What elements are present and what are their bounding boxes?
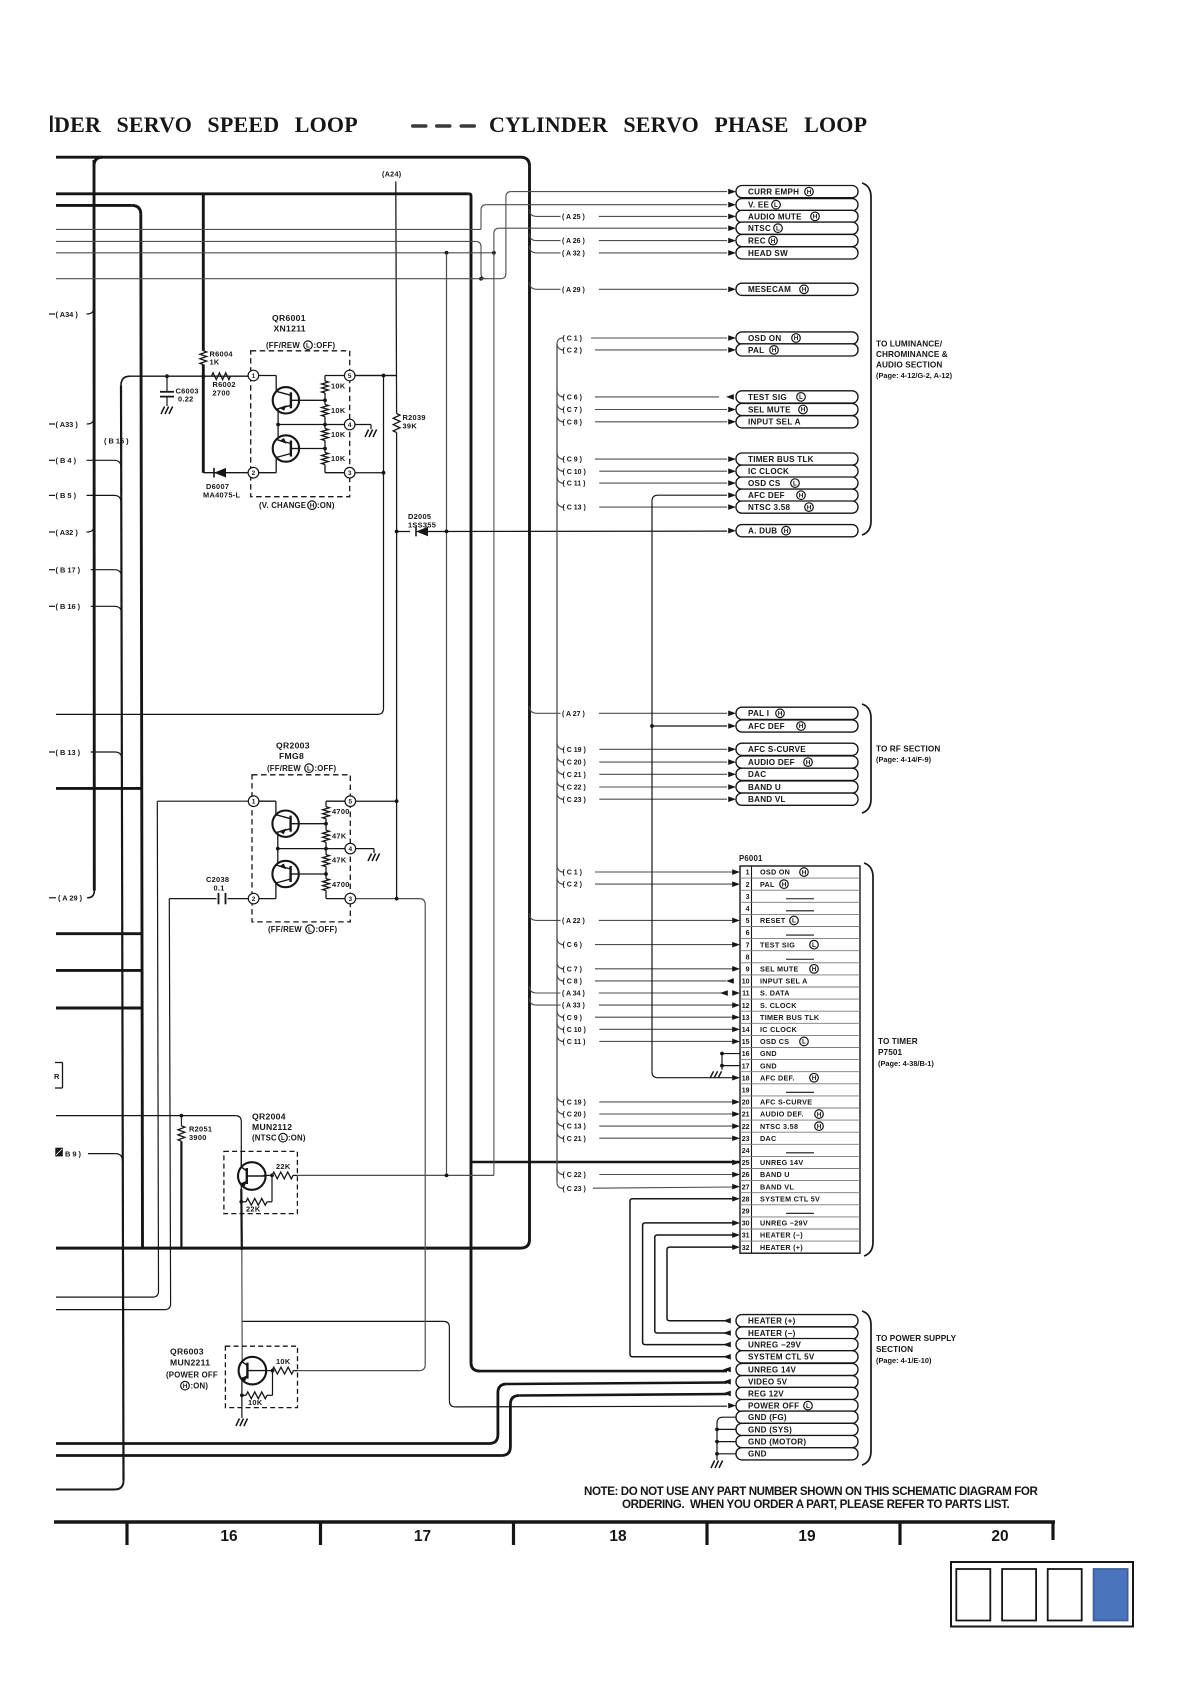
QR6001 pin 1: [248, 370, 259, 381]
wire stub y=1310: [56, 1309, 165, 1311]
wire QR2003 pin2 input: [169, 898, 216, 900]
svg-text:UNREG −29V: UNREG −29V: [760, 1219, 808, 1228]
wire (C2) to PAL: [557, 343, 727, 355]
svg-text:SYSTEM CTL 5V: SYSTEM CTL 5V: [760, 1194, 820, 1203]
svg-text:XN1211: XN1211: [274, 324, 306, 334]
wire corner into V9: [378, 708, 384, 714]
svg-text:11: 11: [742, 991, 750, 998]
wire thick stub y=934 to V2: [56, 932, 142, 935]
wire POWER OFF vertical: [448, 1327, 450, 1401]
wire QR6001 pin2 input: [203, 472, 248, 474]
node (A34): [49, 307, 94, 319]
wire REG 12V feed: [519, 1394, 727, 1396]
svg-text:R: R: [54, 1072, 60, 1081]
wire V1 corner into (A29): [87, 891, 94, 898]
svg-text:3: 3: [348, 896, 352, 903]
QR2003 pin 5: [345, 796, 356, 807]
svg-text:( A33 ): ( A33 ): [56, 420, 79, 429]
wire (C11) to pin15: [557, 1034, 733, 1046]
signal flag NTSC: [728, 222, 858, 234]
off-page bracket R: [54, 1063, 63, 1089]
svg-text:VIDEO 5V: VIDEO 5V: [748, 1378, 788, 1387]
wire corner down to QR2004: [235, 1116, 241, 1122]
signal flag UNREG 14V: [723, 1363, 858, 1375]
P6001 pin 32 HEATER (+): [742, 1243, 804, 1252]
signal flag GND: [736, 1448, 858, 1460]
svg-text:4: 4: [348, 846, 352, 853]
svg-text:AFC DEF.: AFC DEF.: [760, 1073, 795, 1082]
wire QR2004 emitter: [240, 1185, 242, 1202]
wire vertical x=169 from C2038: [169, 899, 170, 1304]
svg-text:GND (MOTOR): GND (MOTOR): [748, 1438, 806, 1447]
svg-text:10K: 10K: [331, 430, 346, 439]
svg-text:7: 7: [746, 942, 750, 949]
svg-text:0.22: 0.22: [178, 395, 194, 404]
wire QR6001 pin1 input: [130, 375, 248, 377]
signal flag AFC S-CURVE: [728, 743, 858, 755]
QR2003 resistor chain 4700/47K/47K/4700: [323, 807, 350, 891]
svg-text:( B 5 ): ( B 5 ): [56, 491, 77, 500]
section label TO POWER SUPPLY: [876, 1334, 957, 1365]
svg-text:QR6003: QR6003: [170, 1347, 204, 1357]
P6001 pin 21 AUDIO DEF.: [742, 1110, 824, 1119]
P6001 pin 2 PAL: [746, 880, 789, 889]
svg-text:H: H: [813, 214, 818, 221]
svg-text:OSD ON: OSD ON: [748, 334, 781, 343]
wire NTSC feed stub: [56, 252, 494, 254]
svg-text:AUDIO SECTION: AUDIO SECTION: [876, 361, 942, 370]
page indicator boxes: [951, 1562, 1133, 1627]
svg-text::ON): :ON): [191, 1382, 209, 1391]
wire QR6003 output to vertical: [298, 1370, 420, 1372]
svg-text:( C 13 ): ( C 13 ): [563, 1124, 586, 1131]
svg-text:QR2003: QR2003: [276, 741, 310, 751]
section label TO RF SECTION: [876, 745, 940, 765]
svg-text:( C 1 ): ( C 1 ): [563, 336, 582, 343]
QR2003 pin 1: [248, 796, 259, 807]
resistor R2051 3900: [178, 1116, 212, 1249]
signal flag BAND VL: [728, 793, 858, 805]
wire V.EE riser: [481, 205, 486, 230]
svg-text:( C 22 ): ( C 22 ): [563, 1172, 586, 1179]
svg-text:L: L: [306, 342, 310, 349]
title dashes: [411, 124, 428, 128]
svg-text:ORDERING. WHEN YOU ORDER A PA: ORDERING. WHEN YOU ORDER A PART, PLEASE …: [622, 1498, 1010, 1511]
svg-text:L: L: [307, 765, 311, 772]
svg-text:HEAD SW: HEAD SW: [748, 249, 788, 258]
svg-text:( A 26 ): ( A 26 ): [562, 238, 585, 245]
P6001 pin 31 HEATER (−): [742, 1231, 804, 1240]
svg-text:AFC S-CURVE: AFC S-CURVE: [760, 1098, 812, 1107]
svg-text:MESECAM: MESECAM: [748, 285, 791, 294]
P6001 pin 27 BAND VL: [742, 1182, 795, 1191]
resistor QR6003 10K emitter: [242, 1371, 273, 1407]
svg-text:22K: 22K: [246, 1205, 261, 1214]
wire (C23) to BAND VL: [557, 792, 727, 804]
wire VIDEO 5V feed: [507, 1383, 727, 1385]
wire bottom thick trunk to V7: [56, 1247, 521, 1250]
transistor QR6001-b: [259, 472, 277, 474]
P6001 pin 17 GND: [742, 1061, 777, 1070]
svg-text:( B 17 ): ( B 17 ): [56, 566, 81, 575]
QR2003 pin 3: [345, 893, 356, 904]
node (A29): [49, 894, 83, 903]
svg-text:UNREG −29V: UNREG −29V: [748, 1341, 801, 1350]
svg-text:25: 25: [742, 1160, 750, 1167]
wire REG 12V riser: [501, 1396, 519, 1456]
svg-text:9: 9: [746, 966, 750, 973]
signal flag AUDIO DEF: [728, 756, 858, 768]
P6001 pin 15 OSD CS: [742, 1037, 809, 1046]
wire (C10) to pin14: [557, 1022, 733, 1034]
signal flag GND (SYS): [736, 1423, 858, 1435]
svg-text:( C 1 ): ( C 1 ): [563, 870, 582, 877]
svg-text:19: 19: [798, 1528, 816, 1545]
svg-text:3: 3: [348, 470, 352, 477]
svg-text:2: 2: [746, 882, 750, 889]
svg-text:SYSTEM CTL 5V: SYSTEM CTL 5V: [748, 1353, 815, 1362]
svg-text:( C 9 ): ( C 9 ): [563, 457, 582, 464]
signal flag HEAD SW: [728, 247, 858, 259]
svg-text:L: L: [281, 1135, 285, 1142]
svg-text:OSD ON: OSD ON: [760, 868, 790, 877]
wire V4 below R2039: [396, 433, 398, 532]
svg-text:NOTE: DO NOT USE ANY PART NUMB: NOTE: DO NOT USE ANY PART NUMBER SHOWN O…: [584, 1485, 1038, 1498]
wire H3-V2 corner: [132, 205, 141, 214]
wire NTSC net vertical to QR2004: [493, 253, 495, 1176]
svg-text:1: 1: [252, 799, 256, 806]
wire (A26) to REC: [530, 234, 728, 246]
svg-text:( C 7 ): ( C 7 ): [563, 407, 582, 414]
svg-text:17: 17: [742, 1063, 750, 1070]
P6001 pin 24 NC: [742, 1148, 814, 1155]
svg-text:( C 6 ): ( C 6 ): [563, 942, 582, 949]
transistor QR2004 MUN2112: [224, 1112, 306, 1214]
P6001 pin 7 TEST SIG: [746, 940, 819, 949]
wire (A29) to MESECAM: [530, 282, 728, 294]
signal flag TIMER BUS TLK: [728, 453, 858, 465]
svg-text:H: H: [812, 966, 817, 973]
P6001 pin 11 S. DATA: [742, 989, 790, 998]
svg-text:47K: 47K: [332, 832, 347, 841]
svg-text:AFC DEF: AFC DEF: [748, 722, 785, 731]
wire VIDEO 5V riser: [489, 1384, 507, 1444]
svg-text:UNREG 14V: UNREG 14V: [760, 1158, 803, 1167]
svg-text:H: H: [801, 407, 806, 414]
svg-text:H: H: [812, 1075, 817, 1082]
svg-text:( A32 ): ( A32 ): [56, 528, 79, 537]
QR2003 pin4 ground: [356, 848, 374, 850]
svg-text:H: H: [794, 335, 799, 342]
QR6001 pin5 wire to V4: [355, 375, 397, 377]
QR6003 ground: [241, 1408, 243, 1418]
wire (C23) to pin27: [561, 1186, 733, 1193]
signal flag AUDIO MUTE: [728, 210, 858, 222]
svg-text:23: 23: [742, 1136, 750, 1143]
wire QR6003 emitter: [241, 1379, 243, 1408]
svg-text:16: 16: [742, 1051, 750, 1058]
wire B-bus bottom stub: [56, 1489, 115, 1491]
svg-text:MUN2211: MUN2211: [170, 1358, 210, 1368]
wire (A34) to P6001 pin11: [530, 986, 727, 998]
wire long VIDEO 5V line: [56, 1442, 489, 1445]
P6001 pin 16 GND: [742, 1049, 777, 1058]
svg-text:AFC S-CURVE: AFC S-CURVE: [748, 745, 806, 754]
svg-text:32: 32: [742, 1245, 750, 1252]
QR6001 resistor chain 10K x4: [322, 381, 346, 465]
bracket RF group: [862, 704, 871, 813]
svg-text:26: 26: [742, 1172, 750, 1179]
QR2003 pin 2: [248, 893, 259, 904]
svg-text:( C 21 ): ( C 21 ): [563, 1136, 586, 1143]
QR2003 pin5 wire to V4: [356, 800, 397, 802]
svg-text:DAC: DAC: [748, 770, 766, 779]
wire (A27) to PAL I: [530, 706, 728, 718]
svg-text:( A 29 ): ( A 29 ): [562, 287, 585, 294]
svg-text:H: H: [817, 1111, 822, 1118]
wire vertical x=157 from QR2003 pin1: [157, 801, 158, 1291]
wire left stub y=714: [56, 713, 378, 715]
svg-text:( B 13 ): ( B 13 ): [56, 748, 81, 757]
wire (C13) to pin22: [557, 1119, 733, 1131]
svg-text:10K: 10K: [331, 382, 346, 391]
P6001 pin 22 NTSC 3.58: [742, 1122, 824, 1131]
resistor QR2004 22K collector: [263, 1162, 297, 1179]
svg-text:OSD CS: OSD CS: [748, 479, 781, 488]
svg-text:29: 29: [742, 1208, 750, 1215]
wire B-bus top corner from QR6001 pin1 wire: [121, 376, 130, 385]
wire POWER OFF feed to flag: [455, 1405, 727, 1408]
svg-text:( B 4 ): ( B 4 ): [56, 456, 77, 465]
svg-text:( C 9 ): ( C 9 ): [563, 1015, 582, 1022]
svg-text:(NTSC: (NTSC: [252, 1134, 277, 1143]
wire (C21) to pin23: [557, 1131, 733, 1143]
signal flag GND (MOTOR): [736, 1436, 858, 1448]
signal flag MESECAM: [728, 283, 858, 295]
svg-text:(Page: 4-12/G-2, A-12): (Page: 4-12/G-2, A-12): [876, 371, 953, 380]
wire V3 lower segment: [202, 365, 205, 473]
svg-text:18: 18: [609, 1528, 627, 1545]
svg-text:( C 2 ): ( C 2 ): [563, 882, 582, 889]
wire down to QR6003 base: [241, 1248, 243, 1363]
svg-text:DAC: DAC: [760, 1134, 776, 1143]
svg-text:3900: 3900: [189, 1133, 207, 1142]
wire (C7) to pin9: [557, 962, 733, 974]
svg-text:12: 12: [742, 1003, 750, 1010]
svg-text:(A24): (A24): [382, 170, 402, 179]
svg-text:( C 13 ): ( C 13 ): [563, 505, 586, 512]
wire QR6003 base run y=1321: [242, 1320, 444, 1322]
svg-text:( C 20 ): ( C 20 ): [563, 1112, 586, 1119]
signal flag SYSTEM CTL 5V: [723, 1351, 858, 1363]
P6001 pin 1 OSD ON: [746, 868, 809, 877]
wire V.EE feed stub: [56, 228, 481, 230]
svg-text:0.1: 0.1: [214, 884, 225, 893]
svg-text:INPUT SEL A: INPUT SEL A: [748, 418, 801, 427]
svg-text:L: L: [799, 394, 803, 401]
node (B9): [55, 1148, 122, 1161]
signal flag V. EE: [728, 199, 858, 211]
svg-text:REC: REC: [748, 237, 766, 246]
svg-text:1: 1: [252, 373, 256, 380]
wire (C2) to pin2: [557, 877, 733, 889]
svg-text:L: L: [308, 926, 312, 933]
svg-text:TO LUMINANCE/: TO LUMINANCE/: [876, 340, 943, 349]
svg-text:19: 19: [742, 1087, 750, 1094]
svg-text:P6001: P6001: [739, 854, 763, 863]
wire QR6001 pin5 to V4: [355, 375, 397, 377]
wire D2005 anode side: [397, 531, 410, 533]
svg-text:TIMER BUS TLK: TIMER BUS TLK: [760, 1013, 820, 1022]
bracket luminance group: [862, 183, 871, 535]
svg-text:22: 22: [742, 1124, 750, 1131]
svg-text::ON): :ON): [288, 1134, 306, 1143]
title: CYLINDER SERVO SPEED LOOP (cut): [50, 116, 53, 133]
resistor QR2004 22K emitter: [241, 1175, 272, 1213]
svg-text:H: H: [799, 492, 804, 499]
signal flag DAC: [728, 768, 858, 780]
wire NTSC feed line: [499, 227, 727, 229]
signal flag INPUT SEL A: [728, 416, 858, 428]
svg-text:AUDIO MUTE: AUDIO MUTE: [748, 212, 802, 221]
svg-text:L: L: [776, 225, 780, 232]
transistor QR6001-a: [259, 375, 277, 377]
svg-text:L: L: [792, 918, 796, 925]
svg-text:1K: 1K: [210, 358, 220, 367]
svg-text:17: 17: [414, 1528, 431, 1545]
transistor QR2003-a: [259, 800, 276, 802]
signal flag VIDEO 5V: [723, 1376, 858, 1388]
svg-text:CHROMINANCE &: CHROMINANCE &: [876, 350, 948, 359]
svg-text:H: H: [183, 1383, 188, 1390]
svg-text:SECTION: SECTION: [876, 1345, 913, 1354]
QR2003 pin 4: [345, 843, 356, 854]
svg-text:FMG8: FMG8: [279, 751, 304, 761]
P6001 pin 9 SEL MUTE: [746, 964, 819, 973]
svg-text:S. DATA: S. DATA: [760, 989, 790, 998]
svg-text:30: 30: [742, 1221, 750, 1228]
wire QR6001 pin4 line: [278, 424, 344, 426]
P6001 pin 4 NC: [746, 906, 814, 913]
bracket timer group: [864, 863, 873, 1256]
wire QR6001 pin3 to V9: [355, 472, 384, 474]
svg-text:HEATER (+): HEATER (+): [760, 1243, 803, 1252]
svg-text:INPUT SEL A: INPUT SEL A: [760, 977, 808, 986]
svg-text:4: 4: [746, 906, 750, 913]
svg-text:( C 22 ): ( C 22 ): [563, 785, 586, 792]
wire vertical x=425 to QR6003 output: [424, 905, 426, 1365]
svg-text:20: 20: [742, 1100, 750, 1107]
svg-text:TO TIMER: TO TIMER: [878, 1037, 918, 1046]
svg-text:4700: 4700: [332, 880, 350, 889]
svg-text:H: H: [310, 502, 315, 509]
svg-text:4700: 4700: [332, 807, 350, 816]
wire B-bus vertical: [121, 385, 124, 1480]
svg-text:BAND U: BAND U: [748, 783, 781, 792]
svg-text:GND (FG): GND (FG): [748, 1413, 787, 1422]
svg-text:( A 34 ): ( A 34 ): [562, 991, 585, 998]
wire V4 lower segment: [396, 532, 398, 899]
wire C-bus bottom corner into (C23): [557, 1182, 563, 1188]
wire UNREG 14V to P6001 pin 25: [471, 1161, 740, 1164]
svg-text:B 9 ): B 9 ): [65, 1149, 82, 1158]
signal flag A. DUB: [728, 525, 858, 537]
svg-text::OFF): :OFF): [314, 341, 336, 350]
P6001 pin 12 S. CLOCK: [742, 1001, 798, 1010]
svg-text:22K: 22K: [276, 1162, 291, 1171]
svg-text:CYLINDER SERVO PHASE LOOP: CYLINDER SERVO PHASE LOOP: [489, 112, 867, 137]
svg-text:10K: 10K: [331, 454, 346, 463]
svg-text:H: H: [778, 711, 783, 718]
svg-text:AFC DEF: AFC DEF: [748, 491, 785, 500]
svg-text:20: 20: [991, 1528, 1008, 1545]
wire pin30 to UNREG -29V: [643, 1223, 733, 1345]
wire V1 top corner: [94, 157, 103, 166]
svg-text:27: 27: [742, 1184, 750, 1191]
svg-text:H: H: [817, 1123, 822, 1130]
svg-text:OSD CS: OSD CS: [760, 1037, 789, 1046]
svg-text:GND: GND: [760, 1049, 777, 1058]
wire H2 trunk: [56, 192, 469, 195]
svg-text:( C 20 ): ( C 20 ): [563, 760, 586, 767]
wire (C13) to NTSC 3.58: [557, 500, 727, 512]
svg-text:39K: 39K: [403, 422, 418, 431]
svg-text:2700: 2700: [213, 389, 231, 398]
signal flag OSD CS: [728, 477, 858, 489]
svg-text:REG 12V: REG 12V: [748, 1389, 784, 1398]
wire stub y=1297: [56, 1296, 153, 1298]
svg-text:A. DUB: A. DUB: [748, 527, 777, 536]
svg-text:(Page: 4-14/F-9): (Page: 4-14/F-9): [876, 755, 932, 764]
signal flag GND (FG): [736, 1411, 858, 1423]
svg-text:H: H: [802, 287, 807, 294]
svg-text:BAND U: BAND U: [760, 1170, 790, 1179]
svg-text:H: H: [802, 869, 807, 876]
wire (A22) to P6001 pin5: [530, 913, 734, 925]
wire (C6) to TEST SIG: [557, 390, 719, 402]
wire V5 bottom corner to UNREG 14V: [471, 1363, 480, 1372]
wire QR2003 pin3 right: [350, 898, 419, 900]
svg-text:( A 32 ): ( A 32 ): [562, 251, 585, 258]
P6001 pin 13 TIMER BUS TLK: [742, 1013, 820, 1022]
svg-text:CURR EMPH: CURR EMPH: [748, 188, 799, 197]
wire QR2004 base vertical: [240, 1122, 242, 1167]
svg-text:NTSC 3.58: NTSC 3.58: [760, 1122, 798, 1131]
svg-text:6: 6: [746, 930, 750, 937]
svg-text:H: H: [771, 238, 776, 245]
resistor R6004 1K: [200, 350, 233, 367]
svg-text:31: 31: [742, 1233, 750, 1240]
svg-text:( A 22 ): ( A 22 ): [562, 918, 585, 925]
svg-text:BAND VL: BAND VL: [760, 1182, 794, 1191]
wire (C9) to pin13: [557, 1010, 733, 1022]
wire (C11) to OSD CS: [557, 476, 727, 488]
wire V7 bus A-signals: [528, 166, 531, 1239]
svg-text:( A34 ): ( A34 ): [56, 310, 79, 319]
svg-text:SEL MUTE: SEL MUTE: [760, 964, 799, 973]
node (B16): [49, 602, 122, 613]
svg-text:TIMER BUS TLK: TIMER BUS TLK: [748, 455, 814, 464]
P6001 pin 23 DAC: [742, 1134, 777, 1143]
svg-text:H: H: [807, 504, 812, 511]
svg-text:AUDIO DEF: AUDIO DEF: [748, 758, 795, 767]
svg-text:S. CLOCK: S. CLOCK: [760, 1001, 797, 1010]
svg-text:HEATER (−): HEATER (−): [748, 1329, 796, 1338]
svg-text:( C 11 ): ( C 11 ): [563, 1039, 586, 1046]
svg-text:H: H: [784, 528, 789, 535]
svg-text:(FF/REW: (FF/REW: [266, 341, 300, 350]
svg-text:L: L: [802, 1039, 806, 1046]
